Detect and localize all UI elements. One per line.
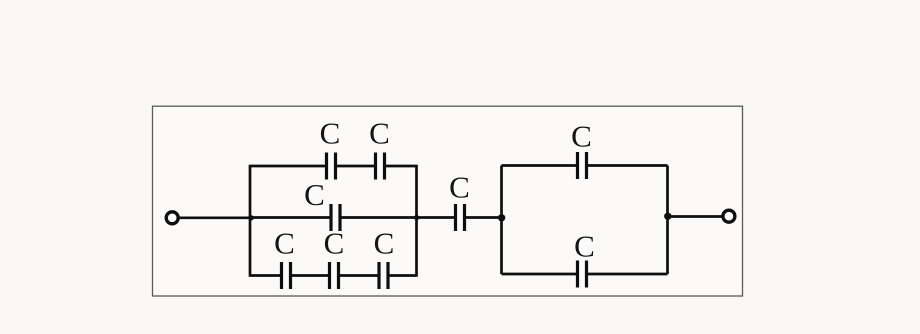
svg-text:C: C xyxy=(274,226,295,261)
svg-text:C: C xyxy=(324,226,345,261)
svg-text:C: C xyxy=(374,226,395,261)
svg-text:C: C xyxy=(304,177,325,212)
svg-text:C: C xyxy=(571,119,592,154)
svg-text:C: C xyxy=(369,116,390,151)
svg-text:C: C xyxy=(574,229,595,264)
svg-text:C: C xyxy=(320,116,341,151)
svg-text:C: C xyxy=(449,170,470,205)
